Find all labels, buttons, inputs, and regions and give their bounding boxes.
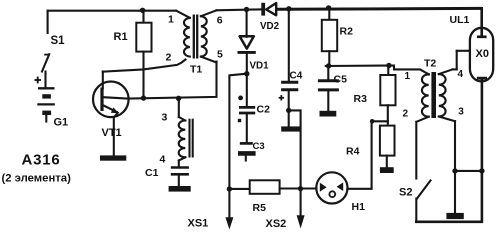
node dot above R1 — [140, 8, 145, 13]
wire top rail right (VD2 to lamp corner) — [277, 7, 482, 11]
svg-text:С3: С3 — [253, 141, 265, 152]
svg-text:С5: С5 — [334, 73, 348, 85]
resistor R5 — [229, 180, 300, 194]
svg-text:2: 2 — [166, 52, 172, 64]
svg-text:S1: S1 — [51, 35, 66, 47]
terminal bar C5 — [320, 111, 337, 117]
terminal bar T2 pin3 — [446, 213, 463, 219]
svg-text:Н1: Н1 — [352, 201, 366, 213]
capacitor C3 — [238, 143, 256, 160]
svg-text:1: 1 — [168, 13, 174, 25]
terminal bar C4 — [281, 126, 300, 131]
ground bar emitter — [100, 155, 126, 160]
svg-text:4: 4 — [160, 154, 166, 166]
capacitor C2 — [239, 74, 255, 142]
svg-text:А316: А316 — [22, 152, 61, 169]
svg-text:2: 2 — [403, 108, 409, 119]
wire link to lamp cathode — [455, 170, 482, 172]
node dot lamp lead — [479, 168, 484, 173]
svg-text:4: 4 — [458, 69, 464, 80]
resistor R1 — [136, 10, 151, 98]
svg-text:Т1: Т1 — [190, 64, 202, 76]
polarity mark C4 — [279, 95, 284, 100]
transformer T1 winding 5-6 — [201, 10, 217, 62]
svg-text:1: 1 — [405, 71, 411, 82]
wire R3-R4 junction to H1 — [347, 121, 387, 189]
node dot R2 tap — [326, 5, 331, 10]
svg-text:С1: С1 — [145, 167, 159, 179]
node dot C4 bottom — [286, 108, 291, 113]
resistor R3 — [380, 66, 395, 126]
lamp UL1 envelope — [470, 28, 493, 82]
polarity mark C2 — [238, 96, 243, 101]
node dot C5 tap — [326, 63, 331, 68]
svg-text:G1: G1 — [54, 117, 69, 129]
svg-text:С4: С4 — [290, 71, 303, 82]
terminal bar C1 — [169, 186, 191, 192]
resistor R4 — [380, 126, 395, 168]
diode VD2 — [263, 3, 276, 16]
node dot R1 bottom — [141, 95, 146, 100]
terminal bar R4 — [380, 167, 394, 173]
capacitor C4 — [281, 9, 298, 127]
node tick at stub end — [370, 119, 375, 124]
svg-text:VD2: VD2 — [260, 21, 280, 32]
wire base rail (VT1 to T1 pin5 corner) — [129, 62, 217, 99]
capacitor C5 — [318, 66, 339, 111]
transformer T1 lower core — [190, 119, 193, 158]
battery G1 — [35, 77, 55, 122]
terminal arrow XS2 — [297, 215, 305, 228]
svg-text:Х0: Х0 — [476, 48, 489, 60]
svg-text:R3: R3 — [354, 93, 368, 105]
transformer T1 winding 3-4 — [179, 98, 186, 166]
svg-text:VD1: VD1 — [250, 60, 270, 71]
node dot T2 pin3 branch — [452, 168, 457, 173]
wire top rail left — [48, 10, 177, 12]
node dot R3 top — [386, 63, 391, 68]
svg-text:3: 3 — [458, 107, 464, 118]
capacitor C1 — [171, 168, 189, 187]
wire top rail middle (T1 pin6 to VD2) — [217, 9, 264, 10]
svg-text:R2: R2 — [340, 25, 354, 37]
svg-text:С2: С2 — [257, 104, 271, 116]
resistor R2 — [322, 8, 337, 66]
svg-text:6: 6 — [217, 15, 223, 27]
svg-text:(2 элемента): (2 элемента) — [2, 173, 72, 185]
diode VD1 — [238, 10, 256, 74]
wire T2 pin3 to terminal — [454, 121, 456, 213]
svg-text:XS1: XS1 — [188, 218, 209, 230]
transformer T1 winding 1-2 — [176, 11, 190, 57]
transformer T1 core — [194, 15, 197, 59]
terminal arrow XS1 — [225, 217, 233, 229]
svg-text:R5: R5 — [253, 202, 267, 214]
wire collector to T1 pin2 — [103, 60, 186, 72]
node dot R5 left — [227, 186, 232, 191]
switch S1 — [42, 11, 50, 88]
wire VD1 node to XS1 branch — [229, 74, 246, 218]
node dot XS2 top — [298, 186, 303, 191]
lamp UL1 top electrode — [477, 8, 487, 37]
transformer T2 winding 4-3 — [439, 51, 470, 121]
transformer T2 winding 1-2 — [417, 74, 429, 122]
transformer T2 core — [431, 72, 436, 118]
svg-text:5: 5 — [217, 49, 223, 61]
node dot VD1 tap — [244, 7, 249, 12]
svg-text:VT1: VT1 — [102, 127, 122, 139]
svg-text:R1: R1 — [114, 31, 128, 43]
svg-text:3: 3 — [162, 112, 168, 124]
transistor VT1 — [93, 72, 129, 156]
node dot C4 tap — [286, 6, 291, 11]
lamp UL1 bottom electrode — [477, 78, 487, 171]
wire oscillator output rail — [326, 66, 429, 75]
node dot winding3 tap — [176, 96, 181, 101]
wire C4 node to XS2 branch — [289, 110, 301, 215]
neon lamp H1 — [301, 172, 348, 203]
wire bottom rail right — [416, 171, 482, 222]
svg-text:S2: S2 — [399, 186, 412, 198]
svg-text:UL1: UL1 — [450, 14, 470, 26]
svg-text:XS2: XS2 — [266, 218, 287, 230]
svg-text:Т2: Т2 — [424, 57, 436, 69]
polarity mark C3 — [238, 119, 241, 122]
switch S2 — [416, 122, 430, 222]
svg-text:R4: R4 — [346, 145, 360, 157]
node dot VD1 bottom — [244, 71, 249, 76]
